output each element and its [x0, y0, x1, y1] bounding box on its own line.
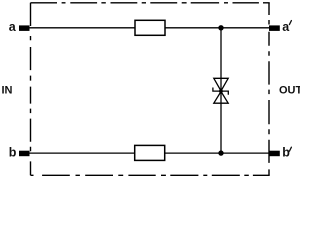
suppressor diode D1 (bidirectional TVS): upper triangle — [214, 78, 228, 91]
node: junction on top line — [218, 25, 223, 30]
suppressor diode D1: center junction blob — [219, 89, 223, 93]
suppressor diode D1: Z-shaped breakdown bar with end hooks — [213, 88, 228, 95]
resistor R2 (bottom series resistor) — [135, 145, 165, 160]
device enclosure dash-dot border: left edge — [30, 3, 32, 176]
resistor R1 (top series resistor) — [135, 20, 165, 35]
device enclosure dash-dot border: bottom edge — [31, 174, 270, 176]
terminal b' (right bottom, filled block) — [269, 151, 280, 157]
terminal a (left top, filled block) — [19, 25, 30, 31]
terminal a' (right top, filled block) — [269, 25, 280, 31]
device enclosure dash-dot border: top edge — [31, 2, 270, 4]
terminal b (left bottom, filled block) — [19, 151, 30, 157]
svg-text:b: b — [9, 145, 17, 159]
device enclosure dash-dot border: right edge — [268, 3, 270, 176]
svg-text:b: b — [282, 145, 290, 159]
svg-text:a: a — [282, 20, 290, 34]
svg-text:OUT: OUT — [279, 85, 300, 97]
wire: vertical shunt branch — [220, 28, 222, 153]
prime mark of a' — [289, 21, 291, 25]
svg-text:IN: IN — [2, 85, 13, 97]
svg-text:a: a — [9, 20, 17, 34]
wire: bottom line b to b' — [30, 152, 270, 154]
suppressor diode D1: lower triangle — [214, 92, 228, 104]
prime mark of b' — [289, 147, 291, 151]
wire: top line a to a' — [30, 27, 270, 29]
node: junction on bottom line — [218, 150, 223, 155]
